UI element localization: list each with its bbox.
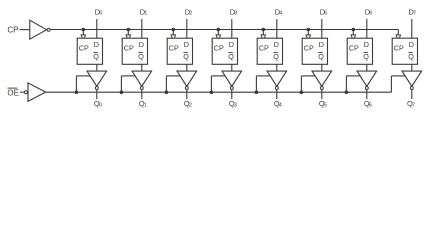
svg-text:CP: CP (214, 44, 224, 53)
svg-text:2: 2 (189, 11, 192, 17)
FF1 dynamic clock input wedge (126, 35, 130, 41)
svg-text:CP: CP (394, 44, 404, 53)
wire CP tap to FF1 clock pin (127, 30, 129, 36)
buffer U31 output bubble (140, 87, 143, 90)
wire D7 input vertical (411, 19, 413, 38)
junction CP bus / FF0 clock (82, 28, 85, 31)
svg-text:D: D (274, 40, 279, 49)
junction OE bus / buffer U30 enable (75, 91, 78, 94)
wire buffer U31 output to Q1 (141, 90, 143, 100)
wire OE tap to buffer U30 enable pin (76, 75, 90, 77)
junction CP bus / FF2 clock (172, 28, 175, 31)
wire CP tap to FF0 clock pin (82, 30, 84, 36)
flip-flop FF0 box (77, 38, 102, 64)
wire OE tap vertical (cell 1) (120, 76, 122, 92)
FF5 dynamic clock input wedge (306, 35, 310, 41)
junction OE bus / buffer U33 enable (210, 91, 213, 94)
buffer U30 output bubble (95, 87, 98, 90)
wire CP tap to FF7 clock pin (397, 30, 399, 36)
wire buffer U36 output to Q6 (366, 90, 368, 100)
wire D0 input vertical (96, 19, 98, 38)
wire FF2 Q-bar to buffer U32 (186, 64, 188, 71)
wire CP tap to FF4 clock pin (262, 30, 264, 36)
wire OE tap to buffer U32 enable pin (166, 75, 180, 77)
OE-bar overline (8, 87, 18, 89)
wire OE tap vertical (cell 6) (345, 76, 347, 92)
junction OE bus / buffer U34 enable (255, 91, 258, 94)
svg-text:D: D (229, 40, 234, 49)
svg-text:CP: CP (79, 44, 89, 53)
wire D6 input vertical (366, 19, 368, 38)
svg-text:4: 4 (279, 102, 282, 108)
FF2 dynamic clock input wedge (171, 35, 175, 41)
svg-text:CP: CP (169, 44, 179, 53)
wire OE enable bus (46, 91, 392, 93)
svg-text:5: 5 (324, 11, 327, 17)
junction CP bus / FF5 clock (307, 28, 310, 31)
svg-text:Q: Q (93, 52, 99, 61)
svg-text:Q: Q (363, 52, 369, 61)
svg-text:4: 4 (279, 11, 282, 17)
flip-flop FF4 box (257, 38, 282, 64)
junction CP bus / FF4 clock (262, 28, 265, 31)
wire OE tap to buffer U33 enable pin (211, 75, 225, 77)
svg-text:OE: OE (7, 88, 19, 97)
svg-text:3: 3 (234, 11, 237, 17)
buffer U32 output bubble (185, 87, 188, 90)
FF7 dynamic clock input wedge (396, 35, 400, 41)
wire FF0 Q-bar to buffer U30 (96, 64, 98, 71)
wire buffer U32 output to Q2 (186, 90, 188, 100)
wire OE tap to buffer U34 enable pin (256, 75, 270, 77)
wire CP tap to FF6 clock pin (352, 30, 354, 36)
tri-state buffer U31 (132, 71, 152, 86)
svg-text:D: D (139, 40, 144, 49)
buffer U2 input bubble (25, 91, 28, 94)
wire OE label to buffer U2 (20, 91, 24, 93)
svg-text:6: 6 (369, 11, 372, 17)
junction OE bus / buffer U31 enable (120, 91, 123, 94)
wire OE tap vertical (cell 5) (300, 76, 302, 92)
wire OE tap vertical (cell 0) (75, 76, 77, 92)
svg-text:7: 7 (413, 11, 416, 17)
inverter U1 output bubble (47, 28, 50, 31)
svg-text:Q: Q (408, 52, 414, 61)
wire FF6 Q-bar to buffer U36 (366, 64, 368, 71)
svg-text:Q: Q (318, 52, 324, 61)
wire D4 input vertical (276, 19, 278, 38)
svg-text:D: D (94, 40, 99, 49)
wire FF3 Q-bar to buffer U33 (231, 64, 233, 71)
wire buffer U33 output to Q3 (231, 90, 233, 100)
svg-text:CP: CP (124, 44, 134, 53)
wire FF5 Q-bar to buffer U35 (321, 64, 323, 71)
svg-text:1: 1 (144, 11, 147, 17)
FF6 dynamic clock input wedge (351, 35, 355, 41)
svg-text:D: D (319, 40, 324, 49)
tri-state buffer U32 (177, 71, 197, 86)
junction OE bus / buffer U35 enable (300, 91, 303, 94)
wire CP clock bus (50, 29, 398, 31)
svg-text:Q: Q (228, 52, 234, 61)
wire OE tap to buffer U37 enable pin (391, 75, 405, 77)
buffer U37 output bubble (410, 87, 413, 90)
junction CP bus / FF6 clock (352, 28, 355, 31)
svg-text:5: 5 (324, 102, 327, 108)
tri-state buffer U30 (87, 71, 107, 86)
junction OE bus / buffer U36 enable (345, 91, 348, 94)
tri-state buffer U33 (222, 71, 242, 86)
svg-text:CP: CP (304, 44, 314, 53)
svg-text:6: 6 (369, 102, 372, 108)
junction CP bus / FF1 clock (127, 28, 130, 31)
svg-text:CP: CP (349, 44, 359, 53)
tri-state buffer U36 (357, 71, 377, 86)
flip-flop FF6 box (347, 38, 372, 64)
wire buffer U35 output to Q5 (321, 90, 323, 100)
wire OE tap vertical (cell 7) (390, 76, 392, 92)
svg-text:D: D (184, 40, 189, 49)
buffer U34 output bubble (275, 87, 278, 90)
flip-flop FF5 box (302, 38, 327, 64)
FF4 dynamic clock input wedge (261, 35, 265, 41)
svg-text:Q: Q (273, 52, 279, 61)
wire OE tap vertical (cell 3) (210, 76, 212, 92)
inverter U1 (CP buffer) (30, 20, 47, 39)
wire D5 input vertical (321, 19, 323, 38)
wire FF1 Q-bar to buffer U31 (141, 64, 143, 71)
svg-text:D: D (364, 40, 369, 49)
FF0 dynamic clock input wedge (81, 35, 85, 41)
svg-text:CP: CP (7, 26, 18, 35)
tri-state buffer U37 (402, 71, 422, 86)
wire buffer U34 output to Q4 (276, 90, 278, 100)
wire FF4 Q-bar to buffer U34 (276, 64, 278, 71)
wire buffer U30 output to Q0 (96, 90, 98, 100)
wire FF7 Q-bar to buffer U37 (411, 64, 413, 71)
wire OE tap vertical (cell 2) (165, 76, 167, 92)
svg-text:D: D (409, 40, 414, 49)
wire D1 input vertical (141, 19, 143, 38)
svg-text:2: 2 (189, 102, 192, 108)
buffer U33 output bubble (230, 87, 233, 90)
wire CP tap to FF3 clock pin (217, 30, 219, 36)
svg-text:1: 1 (144, 102, 147, 108)
wire OE tap to buffer U31 enable pin (121, 75, 135, 77)
buffer U36 output bubble (365, 87, 368, 90)
flip-flop FF1 box (122, 38, 147, 64)
junction OE bus / buffer U32 enable (165, 91, 168, 94)
wire D3 input vertical (231, 19, 233, 38)
svg-text:Q: Q (138, 52, 144, 61)
FF3 dynamic clock input wedge (216, 35, 220, 41)
tri-state buffer U34 (267, 71, 287, 86)
svg-text:7: 7 (412, 102, 415, 108)
svg-text:0: 0 (99, 11, 102, 17)
flip-flop FF7 box (392, 38, 417, 64)
flip-flop FF2 box (167, 38, 192, 64)
svg-text:3: 3 (234, 102, 237, 108)
wire D2 input vertical (186, 19, 188, 38)
buffer U35 output bubble (320, 87, 323, 90)
buffer U2 (output enable) (28, 83, 46, 101)
svg-text:Q: Q (183, 52, 189, 61)
tri-state buffer U35 (312, 71, 332, 86)
wire OE tap vertical (cell 4) (255, 76, 257, 92)
flip-flop FF3 box (212, 38, 237, 64)
wire OE tap to buffer U36 enable pin (346, 75, 360, 77)
wire CP tap to FF2 clock pin (172, 30, 174, 36)
wire CP label to inverter U1 (20, 29, 30, 31)
wire OE tap to buffer U35 enable pin (301, 75, 315, 77)
junction CP bus / FF3 clock (217, 28, 220, 31)
wire buffer U37 output to Q7 (411, 90, 413, 100)
svg-text:0: 0 (99, 102, 102, 108)
svg-text:CP: CP (259, 44, 269, 53)
wire CP tap to FF5 clock pin (307, 30, 309, 36)
